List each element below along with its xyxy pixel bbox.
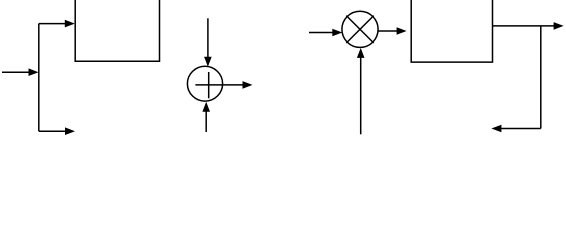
summing junction S1 circle (187, 66, 222, 101)
block G2 (open-top box) (411, 0, 492, 62)
wire top input to summer (204, 18, 212, 67)
wire input arrow to multiplier (309, 29, 342, 37)
wire input arrow left (2, 68, 39, 76)
block G1 (open-top box) (75, 0, 159, 61)
wire summer output arrow (222, 81, 253, 89)
wire bottom input to summer (202, 102, 210, 132)
wire feedback vertical (540, 26, 542, 129)
multiplier junction M1 X sign (346, 16, 373, 43)
wire branch lower output (39, 127, 75, 135)
wire bottom input to multiplier (357, 48, 365, 134)
wire feedback arrow left (491, 125, 540, 133)
summing junction S1 plus sign (195, 72, 221, 98)
node branch vertical (38, 24, 40, 132)
wire branch to box G1 (39, 20, 75, 28)
multiplier junction M1 circle (342, 11, 378, 47)
wire multiplier output arrow (378, 27, 407, 35)
wire system output arrow (493, 22, 564, 30)
